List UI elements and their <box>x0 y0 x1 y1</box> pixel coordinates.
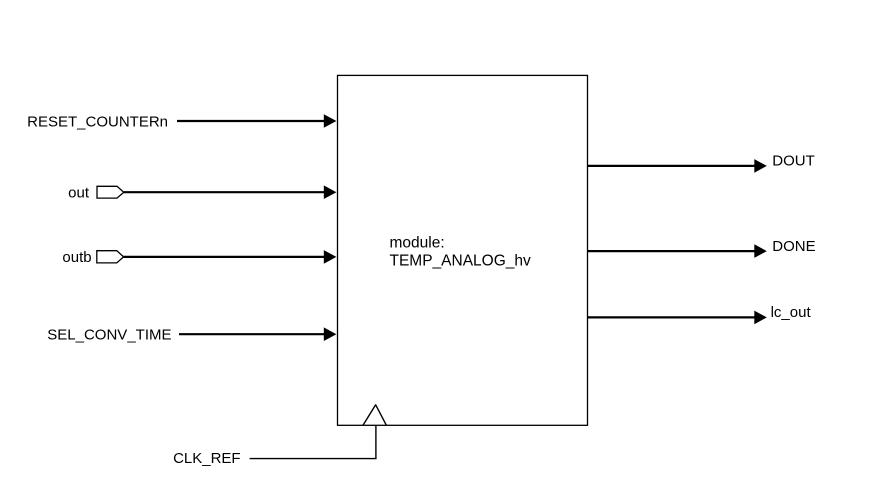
wire out <box>124 185 337 199</box>
svg-text:RESET_COUNTERn: RESET_COUNTERn <box>27 113 168 130</box>
wire lc_out <box>588 311 767 325</box>
pin stub outb <box>97 251 124 263</box>
wire DOUT <box>588 159 767 173</box>
svg-text:TEMP_ANALOG_hv: TEMP_ANALOG_hv <box>390 252 532 269</box>
wire DONE <box>588 244 767 258</box>
clock triangle pin <box>363 405 386 426</box>
wire SEL_CONV_TIME <box>179 327 336 341</box>
svg-text:DOUT: DOUT <box>772 152 815 169</box>
svg-text:outb: outb <box>62 249 91 266</box>
svg-text:DONE: DONE <box>772 238 815 255</box>
svg-text:module:: module: <box>390 235 445 252</box>
svg-text:CLK_REF: CLK_REF <box>173 450 241 467</box>
wire CLK_REF <box>250 425 376 458</box>
svg-text:lc_out: lc_out <box>771 304 812 321</box>
wire RESET_COUNTERn <box>177 114 336 128</box>
svg-text:SEL_CONV_TIME: SEL_CONV_TIME <box>47 327 171 344</box>
module box U1 TEMP_ANALOG_hv <box>338 75 588 425</box>
pin stub out <box>97 186 124 198</box>
svg-text:out: out <box>68 184 90 201</box>
module label text <box>390 235 532 270</box>
wire outb <box>124 250 337 264</box>
